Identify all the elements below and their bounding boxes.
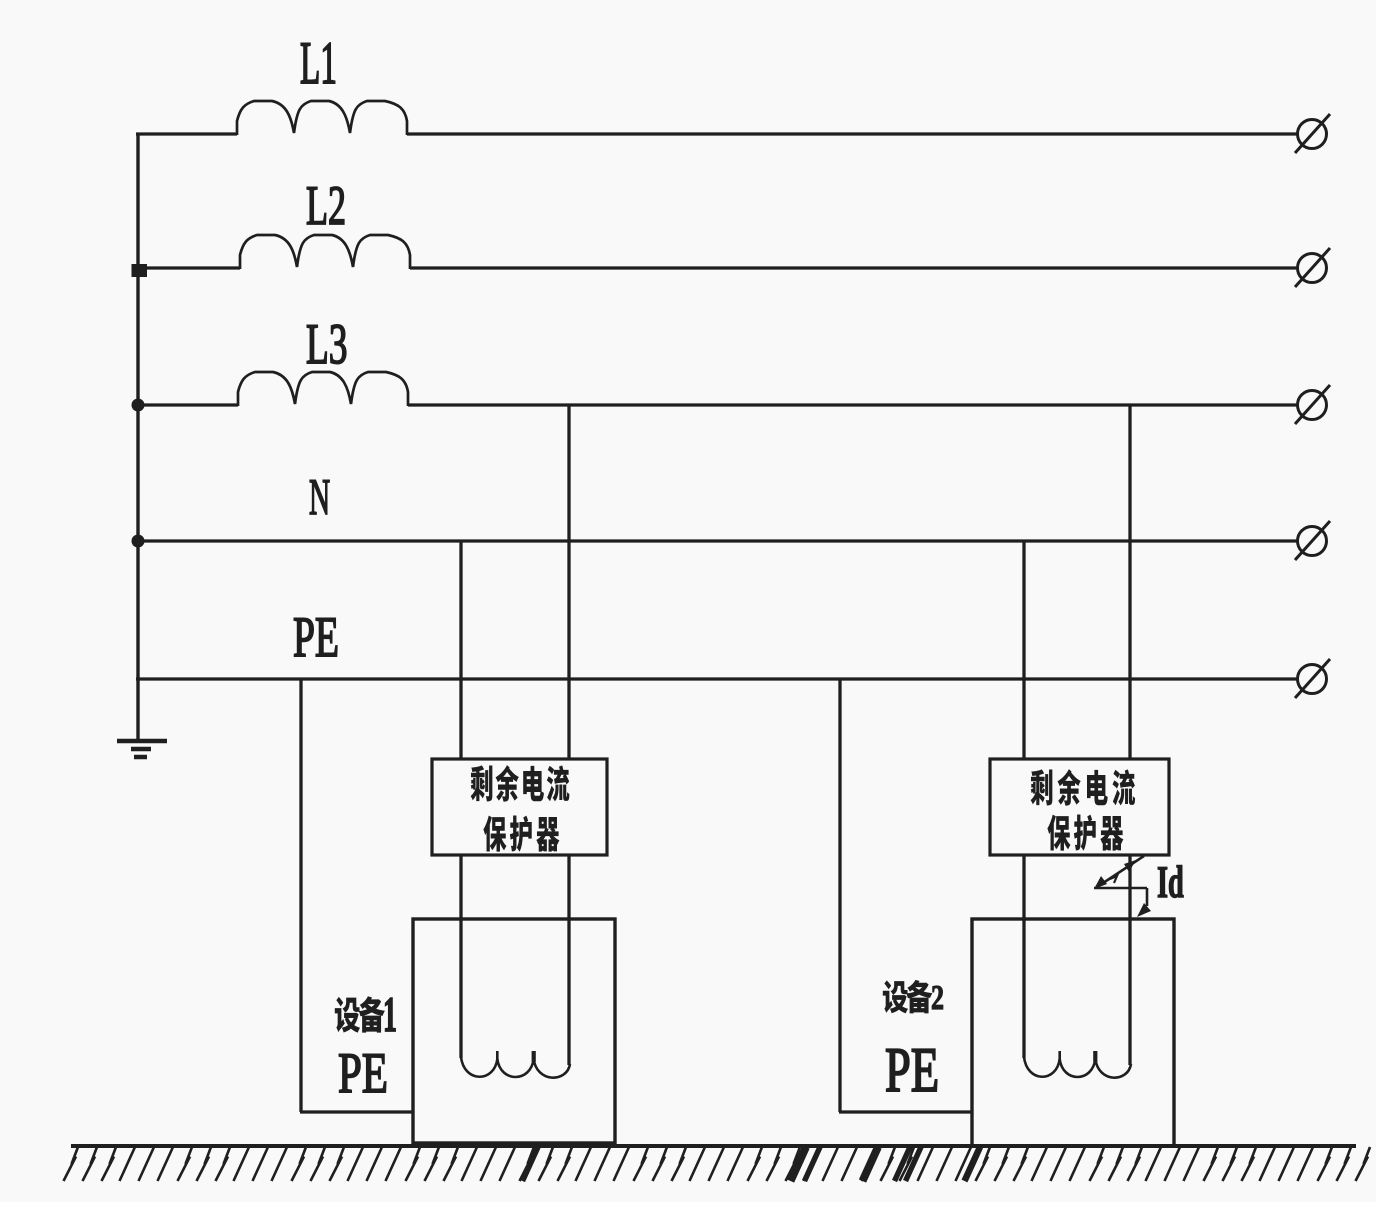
node: square junction on L2: [132, 264, 148, 277]
terminal L3: [1298, 391, 1327, 420]
terminal PE: [1298, 665, 1327, 694]
node: junction dot on N: [132, 535, 145, 548]
wire: L3 drop to left RCD: [567, 405, 570, 760]
terminal L1: [1298, 120, 1327, 149]
label L2: [307, 187, 326, 224]
RCD2 label line 1: 剩余电流: [1031, 769, 1053, 805]
wire: RCD2 to device 2 winding (left): [1022, 855, 1025, 1058]
terminal N: [1298, 527, 1327, 556]
bold hatch strokes: [523, 1147, 539, 1181]
RCD1 label line 2: 保护器: [483, 816, 506, 852]
wire: phase line L1: [136, 132, 237, 135]
earth hatching: [64, 1147, 1371, 1181]
label L3: [307, 325, 326, 363]
wire: left vertical bus: [136, 133, 139, 742]
ground symbol (earth electrode): [117, 739, 167, 744]
label N: [310, 480, 330, 514]
wire: phase line L2: [136, 266, 240, 269]
label L1: [301, 43, 318, 83]
label 设备1: [335, 997, 360, 1033]
device box 2: [972, 919, 1174, 1146]
RCD box 2 (residual current protector): [990, 759, 1169, 855]
wire: L3 drop to right RCD: [1128, 405, 1131, 760]
fault current arrow Id: [1097, 856, 1144, 887]
device 2 winding: [1024, 1057, 1131, 1078]
wire: N drop to left RCD: [459, 541, 462, 760]
wire: RCD1 to device 1 winding (left): [459, 855, 462, 1058]
node: junction dot on L3: [132, 399, 145, 412]
wire: RCD1 to device 1 winding (right): [567, 855, 570, 1065]
label PE (device 2): [886, 1049, 909, 1091]
device 1 winding: [461, 1057, 570, 1078]
label PE (bus): [294, 618, 313, 656]
wire: neutral line N: [136, 539, 1297, 542]
inductor coil on L1: [237, 101, 407, 135]
wire: PE drop to device 1: [299, 679, 302, 1112]
label 设备2: [883, 980, 908, 1013]
RCD box 1 (residual current protector): [432, 759, 607, 855]
RCD2 label line 2: 保护器: [1047, 815, 1070, 851]
terminal L2: [1298, 254, 1327, 283]
RCD1 label line 1: 剩余电流: [471, 765, 493, 801]
wire: RCD2 to device 2 winding (right): [1128, 855, 1131, 1065]
label Id: [1158, 867, 1167, 897]
label PE (device 1): [339, 1054, 360, 1092]
wire: phase line L3: [136, 403, 238, 406]
inductor coil on L2: [240, 235, 410, 269]
wire: N drop to right RCD: [1022, 541, 1025, 760]
inductor coil on L3: [238, 372, 408, 406]
wire: protective earth line PE: [136, 677, 1297, 680]
device box 1: [413, 919, 615, 1143]
earth surface line: [71, 1144, 1356, 1148]
wire: PE drop to device 2: [838, 679, 841, 1112]
